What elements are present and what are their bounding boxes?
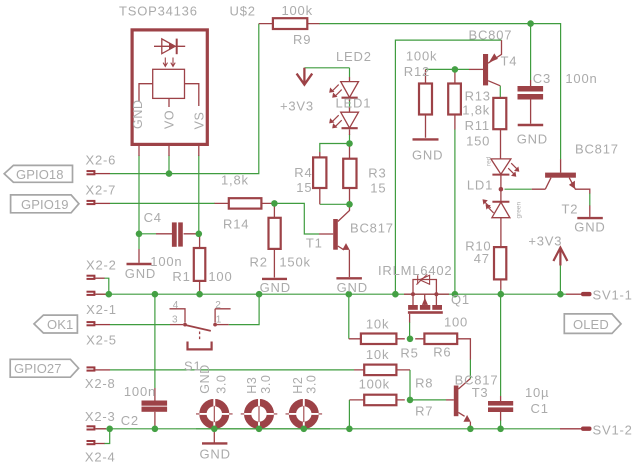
junction Q1 drain on bus bbox=[434, 292, 438, 296]
wire R6 to T3 collector bbox=[469, 359, 471, 379]
svg-text:GND: GND bbox=[131, 99, 145, 129]
wire Q1 gate drop bbox=[409, 322, 411, 339]
wire C2 column bbox=[154, 294, 156, 388]
resistor R3 15 bbox=[343, 147, 356, 205]
resistor R11 150 bbox=[493, 98, 506, 159]
svg-text:SV1-1: SV1-1 bbox=[593, 288, 633, 303]
junction R4/R3/T1 node bbox=[346, 201, 353, 208]
net flag GPIO18 bbox=[4, 165, 72, 182]
svg-text:R1: R1 bbox=[172, 269, 190, 284]
hole H1 GND pad bbox=[196, 398, 233, 430]
wire LED1 cathode to node bbox=[349, 134, 351, 144]
ground symbol U$2/C4 bbox=[127, 249, 152, 264]
svg-text:2: 2 bbox=[215, 300, 221, 311]
pin SV1-1 bbox=[581, 292, 592, 296]
svg-text:C4: C4 bbox=[144, 210, 162, 225]
wire +3V3 arrow drop bbox=[559, 265, 561, 294]
junction bus switch bbox=[256, 291, 263, 298]
wire switch pin1 riser bbox=[229, 294, 259, 324]
svg-text:3.0: 3.0 bbox=[215, 375, 229, 394]
svg-text:X2-3: X2-3 bbox=[85, 409, 116, 424]
+3V3 supply arrow at LED2 bbox=[297, 68, 313, 85]
resistor R4 15 bbox=[313, 152, 326, 204]
photodiode inside U$2 bbox=[154, 39, 185, 54]
svg-text:R11: R11 bbox=[465, 118, 490, 133]
wire TSOP GND pin drop bbox=[138, 155, 140, 234]
svg-text:R2: R2 bbox=[250, 255, 268, 270]
resistor R12 100k bbox=[419, 69, 432, 137]
junction bus X2-2 bbox=[106, 291, 113, 298]
svg-text:X2-1: X2-1 bbox=[86, 302, 117, 317]
wire T3 emitter to bus bbox=[469, 425, 471, 429]
svg-text:X2-7: X2-7 bbox=[86, 183, 117, 198]
transistor T3 BC817 npn bbox=[446, 379, 471, 426]
wire R9 top net to T2 collector bbox=[319, 24, 561, 160]
svg-text:X2-6: X2-6 bbox=[86, 153, 117, 168]
switch S1 pin 4 bbox=[170, 309, 186, 323]
LD1 internal node wire bbox=[500, 175, 502, 202]
svg-text:100k: 100k bbox=[359, 376, 390, 391]
svg-text:R3: R3 bbox=[368, 166, 386, 181]
svg-text:GND: GND bbox=[412, 148, 443, 163]
junction X2-6/VO node bbox=[166, 170, 173, 177]
junction C4 left node bbox=[136, 231, 143, 238]
junction top net C3 node bbox=[527, 20, 534, 27]
junction bus T4 feed bbox=[392, 291, 399, 298]
capacitor C1 10u bbox=[488, 396, 513, 421]
svg-text:T3: T3 bbox=[472, 385, 489, 400]
svg-text:U$2: U$2 bbox=[230, 4, 256, 19]
svg-text:R12: R12 bbox=[404, 64, 430, 79]
switch S1 contact 1 dot bbox=[213, 323, 217, 327]
svg-text:GPIO27: GPIO27 bbox=[14, 361, 62, 376]
wire T2 emitter gnd drop bbox=[589, 193, 591, 206]
resistor R7 100k bbox=[349, 395, 404, 406]
svg-text:R7: R7 bbox=[415, 404, 433, 419]
svg-text:LED1: LED1 bbox=[336, 96, 372, 111]
svg-text:R5: R5 bbox=[400, 346, 418, 361]
svg-text:10k: 10k bbox=[366, 316, 389, 331]
svg-text:LD1: LD1 bbox=[467, 177, 493, 192]
wire node to R4 bbox=[320, 144, 350, 153]
junction C4 right node bbox=[196, 231, 203, 238]
svg-text:GND: GND bbox=[125, 266, 156, 281]
svg-text:BC817: BC817 bbox=[350, 221, 394, 236]
switch S1 contact 3 dot bbox=[183, 323, 187, 327]
svg-text:GND: GND bbox=[198, 364, 212, 394]
resistor R6 100 bbox=[415, 334, 470, 360]
svg-text:LED2: LED2 bbox=[336, 49, 372, 64]
svg-text:H3: H3 bbox=[245, 377, 259, 394]
svg-text:100k: 100k bbox=[282, 3, 313, 18]
svg-text:T2: T2 bbox=[562, 202, 579, 217]
junction bus R13 bbox=[452, 291, 459, 298]
net flag OLED bbox=[564, 314, 621, 334]
svg-text:R9: R9 bbox=[293, 32, 311, 47]
pin X2-2 bbox=[87, 275, 96, 280]
switch S1 pin 1 lead bbox=[217, 324, 229, 326]
svg-text:3.0: 3.0 bbox=[259, 375, 273, 394]
wire SV1-2 pin lead bbox=[560, 428, 582, 430]
junction bottom bus T3 bbox=[467, 426, 474, 433]
svg-text:H2: H2 bbox=[291, 377, 305, 394]
resistor R2 150k bbox=[269, 203, 281, 277]
pin X2-5 bbox=[87, 321, 96, 326]
switch S1 pin 2 bbox=[215, 309, 231, 323]
wire R5 feed from bus bbox=[348, 294, 350, 339]
switch S1 lever bbox=[186, 325, 211, 331]
capacitor C3 100n bbox=[518, 80, 544, 124]
svg-text:R4: R4 bbox=[294, 165, 312, 180]
capacitor C4 100n bbox=[156, 222, 199, 246]
svg-text:OLED: OLED bbox=[573, 317, 609, 332]
svg-text:100k: 100k bbox=[406, 49, 437, 64]
pin X2-3 bbox=[87, 425, 96, 430]
svg-text:15: 15 bbox=[296, 180, 312, 195]
transistor T4 BC807 pnp bbox=[469, 40, 502, 86]
svg-text:GND: GND bbox=[200, 447, 231, 462]
ground symbol C3 bbox=[518, 124, 544, 126]
svg-text:150: 150 bbox=[466, 133, 490, 148]
net flag GPIO19 bbox=[11, 195, 79, 213]
net flag OK1 bbox=[34, 315, 77, 333]
junction bottom bus C2 bbox=[152, 426, 159, 433]
wire C1 bottom stub bbox=[500, 420, 502, 429]
wire T4 emitter supply from bus bbox=[395, 40, 501, 294]
junction Q1 source on bus bbox=[411, 292, 415, 296]
svg-text:VO: VO bbox=[163, 110, 177, 129]
wire T4 base row bbox=[426, 68, 470, 70]
svg-text:GPIO19: GPIO19 bbox=[21, 197, 69, 212]
wire GPIO27/X2-8 net bbox=[110, 369, 354, 371]
junction bus R5 bbox=[346, 291, 353, 298]
svg-text:GPIO18: GPIO18 bbox=[16, 167, 64, 182]
ground symbol T2 bbox=[577, 217, 603, 219]
junction bottom bus X2-4 bbox=[106, 426, 113, 433]
svg-text:C1: C1 bbox=[531, 401, 549, 416]
wire C1 top column bbox=[500, 294, 502, 396]
wire net SV1-1 top bus bbox=[96, 293, 566, 295]
wire T3 base row bbox=[410, 399, 446, 401]
resistor R1 100 bbox=[194, 234, 206, 294]
junction bus +3V3 bbox=[557, 291, 564, 298]
svg-text:1: 1 bbox=[216, 314, 222, 325]
svg-text:R8: R8 bbox=[415, 375, 433, 390]
capacitor C2 100n bbox=[142, 388, 168, 429]
pin X2-6 bbox=[87, 170, 96, 175]
svg-text:3: 3 bbox=[172, 314, 178, 325]
svg-text:SV1-2: SV1-2 bbox=[593, 423, 633, 438]
wire X2-1 OK1 to switch bbox=[110, 324, 170, 326]
junction R5/R6 gate node bbox=[407, 336, 414, 343]
resistor R14 1,8k bbox=[215, 198, 275, 208]
pin X2-1 bbox=[87, 291, 96, 296]
junction R14/R2 node bbox=[271, 200, 278, 207]
svg-text:VS: VS bbox=[193, 112, 207, 130]
svg-text:100n: 100n bbox=[124, 384, 156, 399]
svg-text:T1: T1 bbox=[306, 236, 323, 251]
wire SV1-1 pin lead bbox=[566, 293, 582, 295]
hole H3 pad bbox=[241, 398, 278, 430]
svg-text:10µ: 10µ bbox=[525, 385, 549, 400]
junction bottom bus C1 bbox=[497, 426, 504, 433]
svg-text:green: green bbox=[515, 201, 522, 218]
U$2 internal pin wiring bbox=[139, 84, 199, 107]
resistor R9 100k bbox=[259, 18, 320, 29]
svg-text:GND: GND bbox=[574, 220, 605, 235]
resistor R10 47 bbox=[494, 247, 506, 289]
switch S1 pin 3 lead bbox=[170, 324, 183, 326]
wire X2-2 link bbox=[104, 278, 109, 294]
wire TSOP gnd lead bbox=[138, 234, 140, 249]
junction bottom bus hole H3 bbox=[256, 426, 263, 433]
junction R7/R8 base node bbox=[407, 397, 414, 404]
wire R13 bottom drop bbox=[454, 129, 456, 294]
dual LED LD1 red bbox=[491, 159, 519, 177]
svg-text:1,8k: 1,8k bbox=[221, 173, 249, 188]
wire +3V3 LED2 feed bbox=[304, 67, 349, 69]
svg-text:100: 100 bbox=[208, 269, 232, 284]
junction bus R10 bbox=[498, 291, 505, 298]
resistor R13 1,8k bbox=[448, 69, 461, 129]
svg-text:C3: C3 bbox=[533, 71, 551, 86]
junction T4 base node bbox=[452, 66, 459, 73]
wire R14 to T1 base bbox=[274, 203, 319, 234]
svg-text:100: 100 bbox=[444, 315, 468, 330]
ground symbol hole H1 bbox=[202, 429, 227, 444]
ground symbol R12 bbox=[413, 138, 439, 140]
IR receiver U$2 TSOP34136 box bbox=[132, 30, 207, 156]
ground symbol R2 bbox=[262, 278, 287, 280]
pin SV1-2 bbox=[581, 427, 592, 431]
svg-text:TSOP34136: TSOP34136 bbox=[119, 4, 198, 19]
junction bottom bus hole H2 bbox=[301, 426, 308, 433]
junction LD1 mid node bbox=[499, 187, 504, 192]
svg-text:150k: 150k bbox=[279, 255, 310, 270]
svg-text:X2-4: X2-4 bbox=[85, 449, 116, 464]
svg-text:10k: 10k bbox=[366, 347, 389, 362]
svg-text:+3V3: +3V3 bbox=[280, 99, 314, 114]
svg-text:X2-2: X2-2 bbox=[86, 257, 117, 272]
wire C3 drop bbox=[530, 24, 532, 80]
LED2 bbox=[329, 77, 358, 101]
wire R7 left drop bbox=[348, 400, 350, 429]
junction LED1/R4/R3 node bbox=[346, 140, 353, 147]
switch S1 actuator bracket bbox=[186, 342, 212, 350]
svg-text:R14: R14 bbox=[223, 216, 249, 231]
svg-text:100n: 100n bbox=[565, 71, 597, 86]
wire GPIO18/X2-6 net bbox=[110, 24, 259, 174]
svg-text:C2: C2 bbox=[121, 413, 139, 428]
wire LED2-LED1 link bbox=[349, 100, 351, 109]
wire X2-4 link bbox=[104, 429, 110, 444]
resistor R8 10k bbox=[354, 365, 410, 376]
junction bottom bus R7 bbox=[346, 426, 353, 433]
wire R8 drop to base row bbox=[409, 370, 411, 400]
switch S1 actuator dashed link bbox=[199, 332, 201, 342]
svg-text:OK1: OK1 bbox=[47, 317, 73, 332]
svg-text:4: 4 bbox=[173, 300, 179, 311]
junction bus R1 bbox=[196, 291, 203, 298]
svg-text:47: 47 bbox=[474, 251, 490, 266]
wire R10 bottom stub bbox=[500, 289, 502, 294]
LED1 bbox=[329, 108, 358, 136]
pin X2-7 bbox=[87, 200, 96, 205]
svg-text:R13: R13 bbox=[465, 88, 491, 103]
U$2 pin stubs below box bbox=[139, 146, 199, 156]
transistor T1 BC817 npn bbox=[319, 204, 350, 277]
wire GPIO19/X2-7 net bbox=[110, 202, 215, 204]
svg-text:R6: R6 bbox=[433, 345, 451, 360]
ground symbol T1 bbox=[336, 277, 362, 279]
chip square inside U$2 bbox=[153, 69, 185, 98]
wire net SV1-2 bottom bus bbox=[96, 428, 560, 430]
svg-text:IRLML6402: IRLML6402 bbox=[378, 263, 452, 278]
net flag GPIO27 bbox=[10, 359, 78, 377]
resistor R5 10k bbox=[349, 334, 405, 345]
wire LED2 anode stub bbox=[349, 68, 351, 77]
p-mosfet Q1 IRLML6402 bbox=[404, 274, 449, 322]
wire C4 left link bbox=[139, 233, 156, 235]
svg-text:X2-8: X2-8 bbox=[85, 376, 116, 391]
dual LED LD1 green bbox=[483, 199, 510, 247]
svg-text:3.0: 3.0 bbox=[304, 375, 318, 394]
svg-text:BC817: BC817 bbox=[575, 142, 619, 157]
svg-text:T4: T4 bbox=[501, 54, 518, 69]
wire R11 top stub bbox=[499, 86, 501, 98]
wire bottom bus overdraw across holes bbox=[196, 428, 330, 430]
wire TSOP VO pin drop bbox=[168, 155, 170, 174]
svg-text:+3V3: +3V3 bbox=[528, 234, 562, 249]
svg-text:red: red bbox=[486, 156, 493, 166]
svg-text:GND: GND bbox=[260, 280, 291, 295]
svg-text:GND: GND bbox=[517, 132, 548, 147]
wire TSOP VS pin drop bbox=[198, 155, 200, 234]
wire R4 bottom row bbox=[320, 203, 350, 205]
pin X2-8 bbox=[87, 366, 96, 371]
wire LD1 to T2 base bbox=[505, 188, 532, 190]
svg-text:X2-5: X2-5 bbox=[86, 333, 117, 348]
hole H2 pad bbox=[286, 398, 323, 430]
junction bottom bus hole H1 bbox=[211, 426, 218, 433]
junction bus C2 bbox=[152, 291, 159, 298]
svg-text:GND: GND bbox=[337, 280, 368, 295]
svg-text:BC807: BC807 bbox=[469, 28, 513, 43]
svg-text:15: 15 bbox=[370, 181, 386, 196]
svg-text:1,8k: 1,8k bbox=[462, 103, 490, 118]
transistor T2 BC817 npn rotated bbox=[532, 159, 590, 217]
svg-text:Q1: Q1 bbox=[451, 292, 470, 307]
pin X2-4 bbox=[87, 440, 96, 445]
+3V3 supply arrow right bbox=[553, 248, 567, 266]
